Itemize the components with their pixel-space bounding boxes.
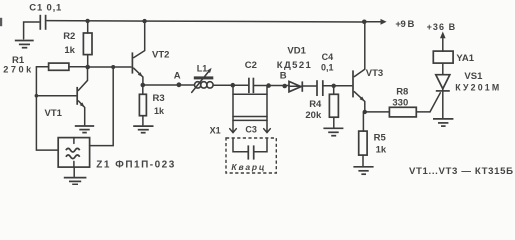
- ground (R5): [353, 167, 373, 174]
- capacitor C3: [248, 145, 253, 159]
- node Z1 branch junction: [111, 65, 115, 69]
- ground (VT1 emitter): [75, 126, 94, 133]
- quartz holder top line: [233, 93, 267, 95]
- ground (R4): [323, 128, 343, 135]
- quartz holder plate lines: [233, 117, 267, 121]
- node R1-R2-VT1 junction: [85, 65, 90, 70]
- svg-text:VT1: VT1: [45, 108, 63, 119]
- capacitor C1: [40, 15, 45, 30]
- svg-text:C4: C4: [322, 52, 334, 62]
- node VT2 emitter junction: [141, 83, 146, 88]
- capacitor C2: [249, 78, 254, 93]
- wire C1 left to ground: [24, 22, 39, 39]
- capacitor C4: [317, 80, 323, 96]
- piezo filter Z1: [58, 138, 89, 168]
- node base tee: [35, 94, 39, 98]
- node VT3 emitter junction: [363, 110, 367, 114]
- socket X1 contact left: [230, 129, 237, 133]
- svg-text:X1: X1: [210, 126, 221, 136]
- relay YA1: [433, 51, 453, 63]
- wire C4 to VT3 base: [324, 85, 352, 87]
- resistor R2: [83, 21, 92, 67]
- svg-text:+9 В: +9 В: [395, 19, 414, 30]
- svg-text:В: В: [280, 71, 287, 82]
- svg-text:Z1 ФП1П-023: Z1 ФП1П-023: [96, 159, 174, 170]
- dashed box (quartz under test): [226, 138, 276, 173]
- svg-text:R3: R3: [153, 93, 165, 104]
- svg-text:Кварц: Кварц: [231, 162, 265, 172]
- wire VT1 collector node to VT2 base: [88, 66, 131, 68]
- ground (VS1): [433, 119, 453, 126]
- resistor R8: [365, 107, 430, 117]
- node rail-VT3 junction: [362, 20, 367, 25]
- svg-text:R8: R8: [396, 87, 408, 98]
- svg-text:VD1: VD1: [287, 46, 306, 57]
- transistor VT3: [353, 22, 365, 112]
- svg-text:1k: 1k: [376, 145, 387, 156]
- node B: [282, 84, 287, 89]
- node A: [177, 82, 182, 87]
- socket X1 right branch: [266, 86, 268, 132]
- svg-text:270k: 270k: [3, 65, 32, 75]
- svg-text:A: A: [174, 70, 181, 81]
- svg-text:330: 330: [392, 97, 408, 108]
- svg-text:C1 0,1: C1 0,1: [29, 2, 62, 13]
- wire VD1 to C4: [303, 85, 316, 87]
- wire C2 to VD1: [254, 85, 289, 87]
- socket X1 left branch: [232, 85, 234, 131]
- node L1-C2-X1 junction: [231, 83, 236, 88]
- svg-text:КД521: КД521: [277, 60, 312, 71]
- wire +9V arrow: [364, 19, 386, 25]
- svg-text:C2: C2: [245, 60, 257, 71]
- svg-text:VS1: VS1: [464, 71, 483, 82]
- svg-text:20k: 20k: [305, 110, 322, 121]
- transistor VT2: [132, 21, 144, 85]
- svg-text:+36 В: +36 В: [427, 22, 456, 32]
- socket X1 contact right: [264, 129, 271, 133]
- inductor L1: [192, 68, 214, 93]
- svg-text:VT1...VT3 — КТ315Б: VT1...VT3 — КТ315Б: [409, 166, 513, 177]
- wire Z1 to ground: [73, 167, 75, 176]
- diode VD1: [289, 81, 302, 91]
- transistor VT1: [77, 67, 87, 125]
- svg-text:0,1: 0,1: [321, 63, 334, 73]
- svg-text:VT3: VT3: [366, 68, 383, 79]
- node rail-R2 junction: [85, 19, 89, 23]
- node rail-VT2 junction: [142, 19, 146, 23]
- wire R1 left down to Z1 left pin: [36, 67, 58, 150]
- svg-text:C3: C3: [245, 125, 257, 135]
- svg-text:1k: 1k: [64, 45, 75, 56]
- svg-text:R2: R2: [63, 31, 75, 42]
- wire +36V arrow: [440, 32, 446, 52]
- node C4-R4 junction: [332, 84, 336, 88]
- svg-text:YA1: YA1: [456, 53, 474, 64]
- svg-text:R5: R5: [374, 133, 387, 144]
- wire plug pins to C3: [233, 139, 267, 152]
- wire junction down to Z1 right pin: [90, 67, 114, 146]
- svg-text:R4: R4: [309, 99, 322, 110]
- ground (Z1): [64, 178, 87, 185]
- ground (C1): [15, 41, 34, 48]
- svg-text:L1: L1: [197, 64, 208, 74]
- node C2-X1 junction: [266, 83, 271, 88]
- wire +9V top rail: [47, 21, 364, 22]
- thyristor VS1: [430, 63, 450, 118]
- resistor R3: [139, 85, 146, 125]
- scan artifact left edge: [0, 18, 2, 26]
- wire base of VT1: [36, 95, 76, 97]
- svg-text:1k: 1k: [154, 106, 165, 116]
- svg-text:VT2: VT2: [152, 50, 169, 61]
- resistor R4: [329, 86, 338, 127]
- resistor R1: [36, 63, 87, 70]
- resistor R5: [359, 112, 367, 166]
- wire L1 to C2: [214, 84, 248, 86]
- wire emitter line to L1: [143, 84, 194, 86]
- ground (R3): [133, 126, 153, 133]
